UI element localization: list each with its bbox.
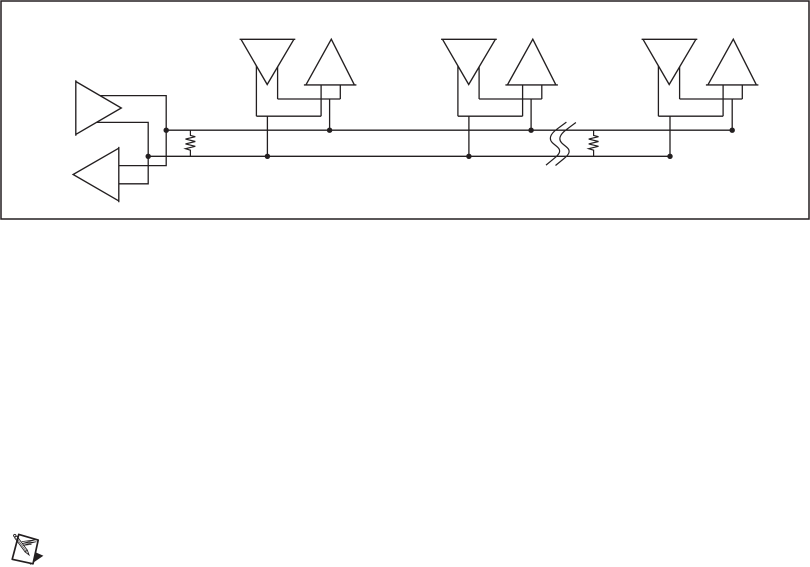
receiver U6: [505, 39, 558, 85]
driver U3: [240, 39, 296, 84]
wire U5/U6 upper horizontal: [479, 98, 542, 100]
wire bus line A: [166, 129, 732, 131]
wire U7/U8 lower horizontal: [658, 115, 723, 117]
junction node bus A station3: [730, 128, 735, 133]
resistor RT1 termination: [186, 130, 196, 156]
wire tap to bus B station2: [468, 116, 470, 156]
wire tap to bus B station1: [266, 116, 268, 156]
receiver U8: [706, 39, 759, 85]
junction node bus B left: [146, 154, 151, 159]
wire tap to bus B station3: [669, 116, 671, 156]
wire U3/U4 lower horizontal: [256, 115, 321, 117]
driver U1: [76, 80, 122, 136]
receiver U2: [73, 147, 119, 202]
wire U1 output to bus B and U2 input: [97, 122, 149, 183]
wire U6 left lead: [522, 85, 524, 116]
wire tap to bus A station3: [731, 99, 733, 130]
junction node bus B station1: [265, 154, 270, 159]
wire U3 left lead: [255, 66, 257, 116]
wire U8 left lead: [722, 85, 724, 116]
note icon: [12, 534, 43, 565]
wire U4 left lead: [320, 85, 322, 116]
wire U5 left lead: [457, 66, 459, 116]
wire U7 left lead: [657, 66, 659, 116]
resistor RT2 termination: [589, 130, 599, 156]
wire bus line B: [148, 155, 670, 157]
junction node bus A left: [164, 128, 169, 133]
wire U3 right lead: [277, 67, 279, 99]
cable break squiggle left: [546, 122, 566, 165]
wire U7 right lead: [679, 67, 681, 99]
wire U6 right lead: [541, 85, 543, 99]
junction node bus B station2: [466, 154, 471, 159]
driver U7: [642, 39, 698, 84]
junction node bus A station2: [528, 128, 533, 133]
wire U3/U4 upper horizontal: [278, 98, 341, 100]
wire U8 right lead: [741, 85, 743, 99]
wire U4 right lead: [339, 85, 341, 99]
receiver U4: [304, 39, 357, 85]
driver U5: [441, 39, 497, 84]
junction node bus A station1: [327, 128, 332, 133]
wire U5/U6 lower horizontal: [458, 115, 523, 117]
wire U7/U8 upper horizontal: [680, 98, 743, 100]
wire U1 output to bus A and U2 input: [100, 96, 166, 166]
cable break squiggle right: [556, 123, 576, 166]
wire tap to bus A station2: [530, 99, 532, 130]
wire U5 right lead: [478, 67, 480, 99]
junction node bus B station3: [667, 154, 672, 159]
wire tap to bus A station1: [329, 99, 331, 130]
